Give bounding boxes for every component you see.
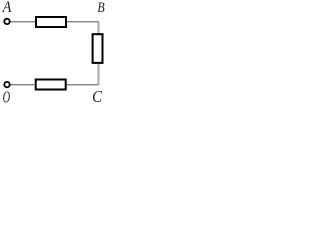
resistor R3 bbox=[36, 80, 66, 90]
resistor R1 bbox=[36, 17, 66, 27]
wire terminal A to R1 bbox=[11, 22, 37, 23]
terminal A bbox=[4, 19, 9, 24]
svg-text:C: C bbox=[92, 88, 102, 105]
resistor R2 bbox=[93, 34, 103, 63]
svg-text:B: B bbox=[97, 0, 104, 15]
svg-text:O: O bbox=[3, 88, 10, 105]
wire R2 to node C bbox=[67, 64, 99, 86]
wire R1 to node B bbox=[67, 22, 99, 34]
wire R3 to terminal O bbox=[11, 85, 35, 86]
svg-text:A: A bbox=[2, 0, 12, 16]
terminal O bbox=[4, 82, 9, 87]
